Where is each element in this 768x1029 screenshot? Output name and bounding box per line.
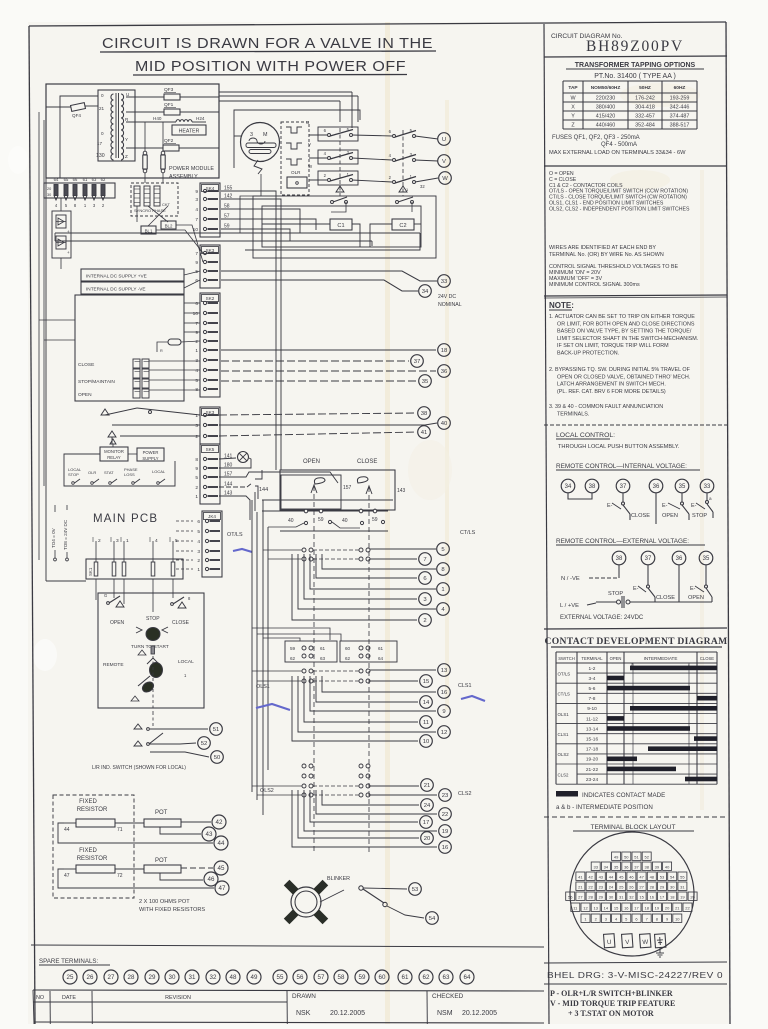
fuse QF4	[71, 103, 98, 118]
svg-text:QF4: QF4	[72, 113, 81, 118]
blue pen mark 2	[256, 704, 290, 710]
svg-text:V - MID TORQUE TRIP FEATU: V - MID TORQUE TRIP FEATURE	[550, 999, 675, 1008]
terminal strip SK2	[200, 293, 220, 397]
terminal 46	[204, 872, 218, 886]
terminal 4	[437, 603, 450, 616]
terminal bus block	[44, 177, 115, 208]
contact development table	[556, 652, 717, 784]
wires to UVW terminals	[415, 136, 438, 182]
svg-text:CLOSE: CLOSE	[172, 620, 190, 626]
svg-text:QF2: QF2	[164, 138, 174, 144]
svg-text:64: 64	[464, 974, 471, 981]
svg-text:MID POSITION WITH POWER OF: MID POSITION WITH POWER OFF	[135, 58, 406, 75]
svg-text:2. BYPASSING TQ. SW. DURING I: 2. BYPASSING TQ. SW. DURING INITIAL 5% T…	[549, 367, 691, 373]
terminal 5	[437, 543, 450, 556]
svg-text:51: 51	[213, 727, 220, 733]
svg-text:V: V	[442, 159, 446, 165]
svg-text:CLS2: CLS2	[558, 772, 570, 777]
svg-text:20.12.2005: 20.12.2005	[330, 1010, 365, 1017]
sidebar header circuit diagram no	[544, 33, 727, 57]
svg-text:BLINKER: BLINKER	[327, 876, 350, 882]
svg-text:E-: E-	[662, 503, 668, 509]
svg-text:49: 49	[614, 854, 619, 859]
svg-text:OT/LS: OT/LS	[558, 671, 571, 676]
svg-text:25: 25	[619, 884, 624, 889]
heater H40 H24	[126, 116, 206, 135]
local remote selector	[103, 645, 194, 712]
svg-text:23-24: 23-24	[586, 777, 599, 783]
svg-text:54: 54	[429, 916, 436, 922]
svg-text:3: 3	[250, 132, 253, 138]
terminal 8	[437, 563, 450, 576]
svg-text:FIXED: FIXED	[79, 799, 97, 805]
svg-text:INDICATES CONTACT MADE: INDICATES CONTACT MADE	[582, 792, 665, 799]
svg-text:TRANSFORMER TAPPING OPTIONS: TRANSFORMER TAPPING OPTIONS	[575, 62, 696, 69]
svg-text:CIRCUIT IS DRAWN FOR A VA: CIRCUIT IS DRAWN FOR A VALVE IN THE	[102, 35, 433, 52]
svg-text:380/400: 380/400	[596, 105, 616, 111]
terminal 20	[421, 832, 434, 845]
svg-text:59: 59	[372, 517, 378, 523]
svg-text:62: 62	[290, 656, 296, 661]
terminal 12	[438, 726, 451, 739]
svg-text:4: 4	[155, 538, 158, 544]
terminal strip JK4	[202, 511, 222, 577]
svg-text:OPEN: OPEN	[662, 513, 678, 519]
svg-text:28: 28	[650, 884, 655, 889]
terminal 52	[198, 737, 211, 750]
svg-text:NO: NO	[36, 995, 44, 1001]
svg-text:37: 37	[414, 359, 421, 365]
svg-text:C1: C1	[337, 223, 344, 229]
terminal 15	[420, 675, 433, 688]
svg-text:16: 16	[441, 690, 448, 696]
svg-text:L/R IND. SWITCH (SHOWN FOR: L/R IND. SWITCH (SHOWN FOR LOCAL)	[92, 765, 186, 771]
svg-text:36: 36	[624, 864, 629, 869]
SK3b wires left	[101, 408, 200, 444]
svg-text:24: 24	[609, 884, 614, 889]
svg-text:POT: POT	[155, 810, 168, 816]
svg-text:22: 22	[685, 905, 690, 910]
svg-text:MONITOR: MONITOR	[104, 449, 124, 454]
svg-text:42: 42	[216, 819, 223, 826]
svg-text:L / +VE: L / +VE	[560, 603, 579, 609]
svg-text:36: 36	[676, 556, 683, 562]
svg-text:1: 1	[195, 494, 198, 500]
svg-text:6: 6	[195, 301, 198, 307]
svg-text:TURN TO START: TURN TO START	[131, 644, 169, 650]
svg-text:5: 5	[175, 538, 178, 544]
svg-text:BACK-UP PROTECTION.: BACK-UP PROTECTION.	[557, 351, 619, 357]
svg-text:INTERNAL DC SUPPLY +VE: INTERNAL DC SUPPLY +VE	[86, 274, 147, 279]
svg-text:1-2: 1-2	[589, 666, 596, 672]
svg-text:LATCH ARRANGEMENT IN SWITCH ME: LATCH ARRANGEMENT IN SWITCH MECH.	[557, 382, 666, 388]
svg-text:0: 0	[101, 131, 104, 136]
svg-text:60: 60	[379, 974, 386, 981]
svg-text:46: 46	[629, 874, 634, 879]
svg-text:332-457: 332-457	[635, 114, 655, 120]
svg-text:1: 1	[441, 587, 444, 593]
svg-text:25: 25	[67, 974, 74, 981]
terminal block UVW boxes	[604, 934, 666, 957]
svg-text:STOP: STOP	[692, 513, 707, 519]
svg-text:4: 4	[195, 368, 198, 374]
svg-text:QF1: QF1	[164, 102, 174, 108]
svg-text:Y: Y	[571, 114, 575, 120]
motor feed wires	[234, 136, 261, 233]
svg-text:U: U	[442, 137, 446, 143]
svg-text:48: 48	[230, 974, 237, 981]
svg-text:59: 59	[290, 646, 296, 651]
svg-text:37: 37	[634, 864, 639, 869]
svg-text:388-517: 388-517	[670, 123, 690, 129]
svg-text:2: 2	[423, 618, 426, 624]
blinker relays BL1 BL2	[137, 206, 203, 262]
coil C2	[392, 219, 414, 230]
svg-text:58: 58	[338, 974, 345, 981]
svg-text:440/460: 440/460	[596, 123, 616, 129]
left riser wires	[39, 112, 75, 560]
svg-text:17: 17	[423, 820, 430, 826]
svg-text:(PL. REF. CAT. BRV 6 FOR MORE: (PL. REF. CAT. BRV 6 FOR MORE DETAILS)	[557, 389, 666, 395]
svg-text:19: 19	[442, 829, 449, 835]
svg-text:REMOTE CONTROL—INTERNAL VOLT: REMOTE CONTROL—INTERNAL VOLTAGE:	[556, 463, 687, 470]
svg-text:23: 23	[599, 884, 604, 889]
svg-text:Y: Y	[125, 137, 128, 142]
svg-text:HEATER: HEATER	[179, 129, 200, 135]
svg-text:NOMINAL: NOMINAL	[438, 302, 462, 308]
svg-text:2 X 100 OHMS POT: 2 X 100 OHMS POT	[139, 899, 190, 905]
close pushbutton	[171, 596, 191, 626]
SK5 wires right	[219, 458, 338, 520]
bank B contacts	[263, 548, 370, 561]
svg-text:54: 54	[670, 874, 675, 879]
terminal 43	[202, 827, 216, 841]
terminal 21	[421, 779, 434, 792]
contactor C1 contacts	[309, 127, 353, 204]
monitor relay box	[100, 447, 128, 461]
svg-text:8: 8	[195, 457, 198, 463]
svg-text:STOP/MAINTAIN: STOP/MAINTAIN	[78, 379, 115, 385]
svg-text:N / -VE: N / -VE	[561, 576, 580, 582]
blue pen mark 3	[461, 696, 485, 701]
svg-text:EXTERNAL VOLTAGE: 24VDC: EXTERNAL VOLTAGE: 24VDC	[560, 615, 644, 621]
svg-text:CLOSE: CLOSE	[656, 595, 675, 601]
svg-text:32: 32	[629, 894, 634, 899]
svg-text:17: 17	[97, 141, 103, 146]
terminal 3	[419, 593, 432, 606]
svg-text:1: 1	[197, 567, 200, 573]
svg-text:2: 2	[195, 339, 198, 345]
svg-text:3: 3	[116, 538, 119, 544]
svg-text:10: 10	[423, 739, 430, 745]
torque flag open	[311, 478, 325, 493]
svg-text:71: 71	[117, 827, 123, 833]
svg-text:20.12.2005: 20.12.2005	[462, 1010, 497, 1017]
fuse QF1	[126, 102, 219, 115]
svg-text:CLOSE: CLOSE	[357, 459, 377, 465]
svg-text:DATE: DATE	[62, 995, 76, 1001]
svg-text:a & b - INTERMEDIATE POSI: a & b - INTERMEDIATE POSITION	[556, 804, 653, 811]
svg-text:STOP: STOP	[146, 616, 160, 622]
svg-text:31: 31	[619, 894, 624, 899]
svg-text:V: V	[308, 142, 311, 147]
svg-text:NSM: NSM	[437, 1010, 453, 1017]
svg-text:61: 61	[402, 974, 409, 981]
svg-text:29: 29	[149, 974, 156, 981]
blue pen mark 1	[233, 549, 252, 552]
svg-text:16: 16	[624, 905, 629, 910]
svg-text:9: 9	[195, 330, 198, 336]
svg-text:2: 2	[197, 558, 200, 564]
svg-text:143: 143	[397, 488, 406, 494]
svg-text:37: 37	[645, 556, 652, 562]
svg-text:20: 20	[690, 894, 695, 899]
svg-text:30: 30	[670, 884, 675, 889]
svg-text:TERMINAL No. (OR) BY WIRE No.: TERMINAL No. (OR) BY WIRE No. AS SHOWN	[549, 252, 664, 258]
svg-text:52: 52	[201, 741, 208, 747]
svg-text:+: +	[67, 250, 70, 255]
svg-text:1: 1	[126, 538, 129, 544]
svg-text:9-10: 9-10	[587, 706, 597, 712]
SK1 connector	[86, 537, 183, 579]
svg-text:9: 9	[195, 189, 198, 195]
svg-text:CT/LS: CT/LS	[460, 530, 476, 536]
terminal strip SK5	[200, 444, 220, 504]
stop pushbutton	[131, 616, 169, 650]
coil C1	[330, 219, 352, 230]
svg-text:TERMINAL: TERMINAL	[581, 656, 603, 661]
svg-text:R: R	[160, 349, 163, 353]
terminal V	[438, 155, 451, 168]
terminal 1	[437, 583, 450, 596]
svg-text:39: 39	[655, 864, 660, 869]
svg-text:57: 57	[318, 974, 325, 981]
remote control internal voltage heading	[556, 463, 700, 470]
svg-text:11-12: 11-12	[586, 716, 598, 722]
svg-text:40: 40	[288, 518, 294, 524]
svg-text:BASED ON VALVE TYPE, BY SETTIN: BASED ON VALVE TYPE, BY SETTING THE TORQ…	[557, 329, 692, 335]
torque flag close	[357, 477, 372, 494]
svg-text:CONTACT DEVELOPMENT DIAGRAM: CONTACT DEVELOPMENT DIAGRAM	[545, 636, 728, 647]
svg-text:E-: E-	[633, 586, 639, 592]
svg-text:18: 18	[644, 905, 649, 910]
svg-text:374-487: 374-487	[670, 114, 690, 120]
fuse QF2	[126, 138, 219, 151]
svg-text:19-20: 19-20	[586, 757, 599, 763]
motor enclosure outline	[234, 110, 360, 168]
svg-text:30: 30	[47, 193, 51, 197]
svg-text:OPEN: OPEN	[110, 620, 125, 626]
svg-text:SUPPLY: SUPPLY	[142, 456, 158, 461]
24v dc nominal label	[438, 294, 462, 308]
svg-text:43: 43	[206, 831, 213, 838]
svg-text:27: 27	[639, 884, 644, 889]
svg-text:6: 6	[197, 519, 200, 525]
svg-text:CT/LS: CT/LS	[558, 692, 571, 697]
svg-text:E-: E-	[691, 503, 697, 509]
svg-text:CLOSE: CLOSE	[631, 513, 650, 519]
terminal block layout heading	[573, 824, 694, 831]
svg-text:OPEN: OPEN	[610, 656, 622, 661]
svg-text:26: 26	[629, 884, 634, 889]
svg-text:RELAY: RELAY	[107, 455, 121, 460]
NOTE section	[549, 301, 698, 417]
svg-text:23: 23	[442, 793, 449, 799]
svg-text:9: 9	[442, 709, 445, 715]
svg-text:OPEN: OPEN	[688, 595, 704, 601]
svg-text:31: 31	[189, 974, 196, 981]
fuse links F1 F2	[143, 122, 165, 183]
svg-text:MAX EXTERNAL LOAD ON TERMINALS: MAX EXTERNAL LOAD ON TERMINALS 33&34 - 6…	[549, 150, 686, 156]
svg-text:31: 31	[680, 884, 685, 889]
svg-text:24: 24	[424, 803, 431, 809]
terminal 14	[420, 696, 433, 709]
svg-text:RESISTOR: RESISTOR	[77, 807, 108, 813]
svg-text:INTERNAL DC SUPPLY -VE: INTERNAL DC SUPPLY -VE	[86, 287, 146, 292]
internal dc supply +ve	[81, 269, 184, 281]
svg-text:220/230: 220/230	[596, 96, 616, 102]
svg-text:U: U	[607, 939, 612, 946]
spare terminals divider	[31, 945, 544, 947]
terminal 53	[409, 883, 422, 896]
transformer tapping table	[563, 81, 697, 129]
svg-text:61: 61	[320, 646, 326, 651]
svg-text:OPEN OR CLOSED VALVE, OBTAINED: OPEN OR CLOSED VALVE, OBTAINED THRO’ MEC…	[557, 374, 690, 380]
rectifier diodes	[52, 198, 71, 269]
terminal 40	[438, 417, 451, 430]
svg-text:72: 72	[117, 873, 123, 879]
svg-text:POT: POT	[155, 858, 168, 864]
svg-text:CHECKED: CHECKED	[432, 993, 464, 1000]
svg-text:59: 59	[359, 974, 366, 981]
svg-text:OLR: OLR	[291, 170, 301, 175]
svg-text:64: 64	[54, 177, 59, 182]
svg-text:50: 50	[624, 854, 629, 859]
terminal 7	[419, 553, 432, 566]
svg-text:28: 28	[128, 974, 135, 981]
terminal strip SK4	[200, 183, 220, 237]
input fuse	[157, 339, 181, 353]
svg-text:SK5: SK5	[206, 447, 215, 452]
svg-text:9: 9	[195, 466, 198, 472]
svg-text:44: 44	[64, 827, 70, 833]
terminal strip SK3b	[200, 407, 220, 444]
abbreviation legend	[549, 171, 690, 212]
svg-text:46: 46	[208, 876, 215, 883]
svg-text:176-242: 176-242	[635, 96, 655, 102]
sidebar divider	[544, 24, 549, 1024]
svg-text:21-22: 21-22	[586, 767, 599, 773]
svg-text:LOSS: LOSS	[124, 472, 135, 477]
svg-text:35: 35	[422, 379, 429, 385]
svg-text:21: 21	[675, 905, 680, 910]
terminal 35	[419, 375, 432, 388]
svg-text:QF4 - 500mA: QF4 - 500mA	[601, 142, 637, 148]
svg-text:14: 14	[604, 905, 609, 910]
svg-text:33: 33	[704, 484, 711, 490]
svg-text:TO4 = 0V: TO4 = 0V	[51, 527, 56, 548]
wire from transformer top left	[60, 96, 98, 178]
svg-text:CLS1: CLS1	[458, 683, 472, 689]
svg-text:11: 11	[423, 720, 429, 726]
svg-text:51: 51	[634, 854, 639, 859]
svg-text:18: 18	[441, 348, 448, 354]
svg-text:38: 38	[421, 411, 428, 417]
svg-text:SK2: SK2	[206, 296, 215, 301]
svg-text:5-6: 5-6	[589, 686, 596, 692]
terminal 38	[418, 407, 431, 420]
local control heading	[556, 432, 680, 450]
svg-text:H24: H24	[196, 116, 205, 121]
motor M	[241, 123, 280, 175]
potentiometer assembly dashed box	[53, 795, 134, 898]
svg-text:OR LIMIT, FOR BOTH OPEN AND CL: OR LIMIT, FOR BOTH OPEN AND CLOSE DIRECT…	[557, 321, 695, 327]
monitor relay feed arrow	[110, 439, 116, 447]
terminal block grid	[566, 852, 697, 922]
svg-text:40: 40	[342, 518, 348, 524]
svg-text:16: 16	[650, 894, 655, 899]
terminal 23	[439, 789, 452, 802]
svg-text:19: 19	[680, 894, 685, 899]
svg-text:SWITCH: SWITCH	[558, 656, 575, 661]
svg-text:33: 33	[593, 864, 598, 869]
svg-text:13-14: 13-14	[586, 726, 599, 732]
svg-text:15-16: 15-16	[586, 737, 599, 743]
blinker switch	[320, 886, 424, 918]
svg-text:E-: E-	[607, 503, 613, 509]
svg-text:5: 5	[195, 475, 198, 481]
svg-text:17-18: 17-18	[586, 747, 599, 753]
svg-text:36: 36	[441, 369, 448, 375]
svg-text:47: 47	[64, 873, 70, 879]
svg-text:7: 7	[423, 557, 426, 563]
svg-text:+ 3 T.STAT ON MOTOR: + 3 T.STAT ON MOTOR	[568, 1009, 654, 1018]
power supply box	[137, 448, 164, 461]
terminal 50	[211, 751, 224, 764]
svg-text:21: 21	[424, 783, 431, 789]
svg-text:TO8 = 24V DC: TO8 = 24V DC	[63, 519, 68, 550]
svg-text:29: 29	[660, 884, 665, 889]
svg-text:26: 26	[87, 974, 94, 981]
svg-text:1: 1	[195, 348, 198, 354]
svg-text:65: 65	[64, 177, 69, 182]
svg-text:38: 38	[616, 556, 623, 562]
svg-text:63: 63	[443, 974, 450, 981]
svg-text:16: 16	[442, 845, 449, 851]
power module assembly box	[46, 84, 219, 178]
terminal 10	[420, 735, 433, 748]
svg-text:W: W	[642, 939, 648, 946]
svg-text:ASSEMBLY: ASSEMBLY	[169, 174, 198, 180]
svg-text:10: 10	[193, 227, 199, 233]
svg-text:LOCAL: LOCAL	[152, 469, 166, 474]
svg-text:3-4: 3-4	[589, 676, 596, 682]
torque switch mechanism box	[255, 470, 406, 510]
center vertical bus pair	[252, 225, 281, 815]
svg-text:18: 18	[670, 894, 675, 899]
svg-text:SK1: SK1	[88, 567, 93, 576]
pot 1	[58, 810, 213, 843]
svg-text:52: 52	[644, 854, 649, 859]
svg-text:38: 38	[644, 864, 649, 869]
svg-text:144: 144	[259, 487, 268, 493]
svg-text:47: 47	[219, 885, 226, 892]
svg-text:41: 41	[578, 874, 583, 879]
svg-text:7: 7	[195, 217, 198, 223]
svg-text:E-: E-	[690, 586, 696, 592]
svg-text:RESISTOR: RESISTOR	[77, 856, 108, 862]
svg-text:27: 27	[108, 974, 115, 981]
